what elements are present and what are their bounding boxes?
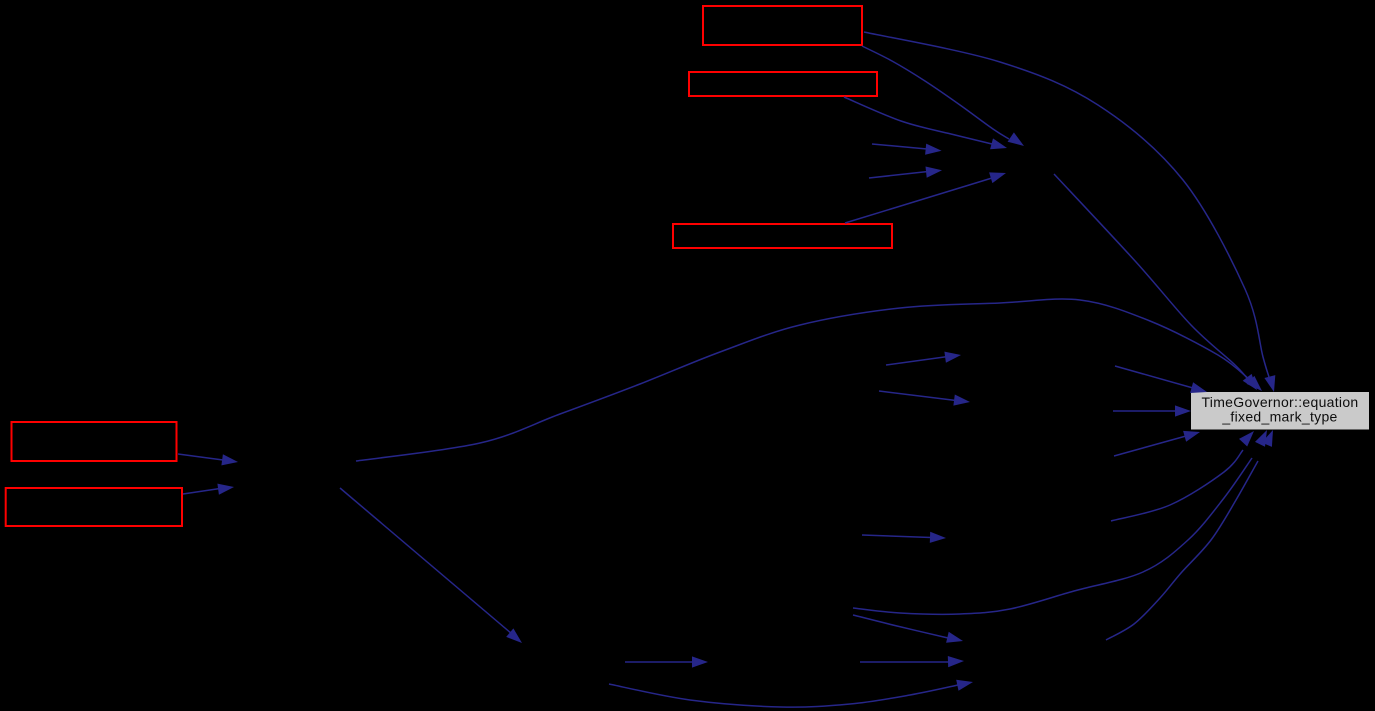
edge node M6 to node M7 (853, 615, 963, 643)
edge node M5 bottom curve to node M8 (609, 680, 973, 707)
edge node M10 to TimeGovernor node bottom-left (1114, 431, 1200, 456)
node TimeGovernor::equation_fixed_mark_type (gray focus node) (1191, 392, 1369, 430)
edge invisible-caller-3 to node M4 (886, 352, 961, 365)
edge invisible-caller-2 to node M1 (869, 167, 942, 179)
edge node M7 to TimeGovernor node bottom (860, 656, 964, 667)
node Box1 (red, truncated caller) (703, 6, 862, 45)
edge BoxA to node M2 (178, 454, 238, 465)
edge node M9 to TimeGovernor node bottom (1111, 431, 1254, 521)
edge node M5 to node M6 (625, 656, 708, 667)
edge Box1 to node M3 upper (862, 46, 1024, 146)
edge Box3 to node M3 lower (845, 172, 1006, 223)
edge node M2 to node M5 (340, 488, 522, 643)
node BoxA (red, truncated caller) (12, 422, 177, 461)
node Box2 (red, truncated caller) (689, 72, 877, 96)
edge Box2 to node M3 (844, 97, 1007, 149)
edge invisible-caller-1 to node M1 (872, 144, 942, 155)
node Box3 (red, truncated caller) (673, 224, 892, 248)
edge node M2 long arc to TimeGovernor node (356, 299, 1262, 461)
node BoxB (red, truncated caller) (6, 488, 182, 526)
edge node M4 to TimeGovernor node left (1113, 405, 1191, 416)
edge node M4 to TimeGovernor node top-left (1115, 366, 1207, 393)
svg-text:_fixed_mark_type: _fixed_mark_type (1221, 408, 1337, 424)
edge invisible-caller-4 to node M4 (879, 391, 970, 406)
edge node M3 to TimeGovernor node (1054, 174, 1257, 390)
edge invisible-caller-5 to node M9 (862, 532, 946, 543)
edge node M6 curve to TimeGovernor node bottom (853, 430, 1267, 614)
edge Box1 big arc to TimeGovernor node (864, 32, 1275, 392)
edge BoxB to node M2 (183, 484, 234, 495)
edge node M8 curve to TimeGovernor node bottom (1106, 430, 1273, 640)
